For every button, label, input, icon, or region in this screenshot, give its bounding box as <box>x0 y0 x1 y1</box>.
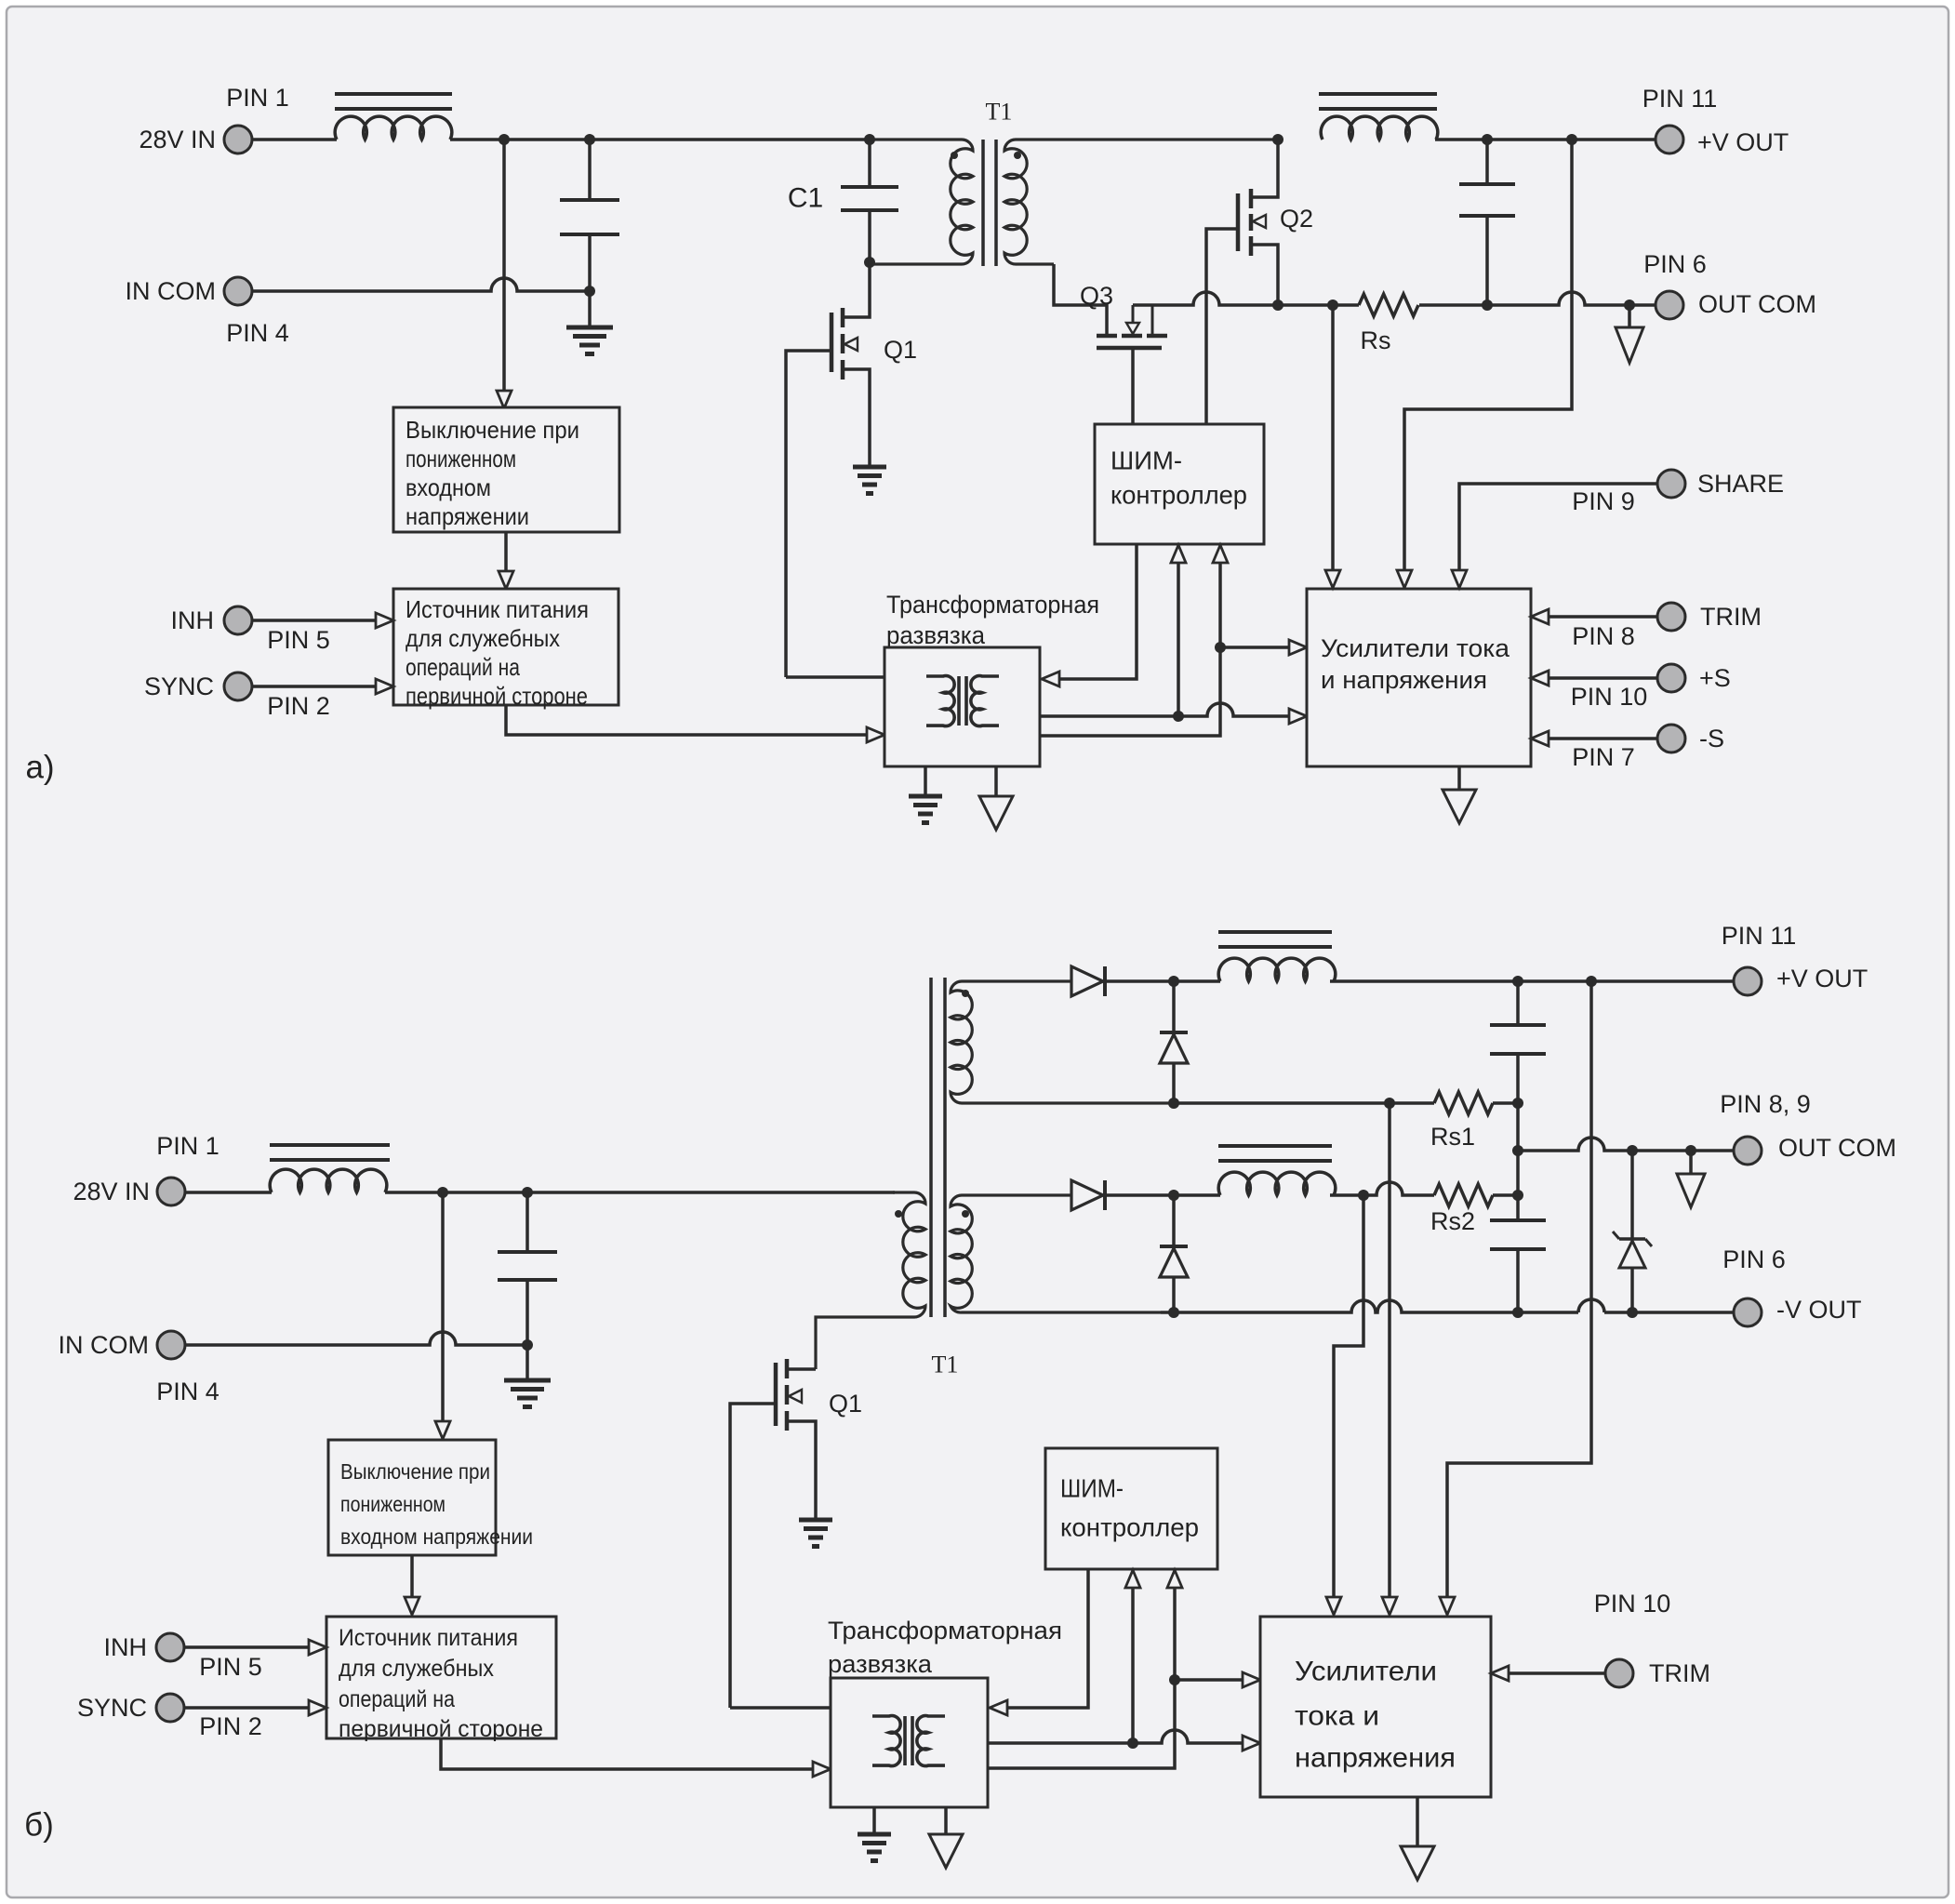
inductor input filter with core (fig a) <box>335 94 452 140</box>
svg-text:PIN 11: PIN 11 <box>1642 85 1718 113</box>
junction lower output branch (fig b) <box>1169 1674 1180 1685</box>
wire isolation box mid output (fig a) <box>1040 703 1307 724</box>
transformer T1 primary winding (fig b) <box>816 1192 925 1369</box>
wire UVLO to housekeeping box (fig a) <box>504 532 508 571</box>
svg-text:INH: INH <box>171 606 215 634</box>
wire PWM to isolation box feedback (fig b) <box>990 1569 1088 1715</box>
label Q3 (fig a) <box>1080 282 1113 310</box>
wire INH to box (fig b) <box>184 1640 326 1655</box>
svg-text:Q3: Q3 <box>1080 282 1113 310</box>
wire diode to L1 (fig b) <box>1105 979 1220 983</box>
terminal INH PIN5 (fig b) <box>104 1633 262 1681</box>
chassis arrow amplifier box (fig a) <box>1443 766 1476 823</box>
resistor Rs1 (fig b) <box>1434 1092 1493 1114</box>
T1 primary dot marker (fig a) <box>951 152 958 159</box>
label Rs (fig a) <box>1361 326 1391 354</box>
T1 secondary dot marker (fig a) <box>1014 152 1021 159</box>
svg-text:Q2: Q2 <box>1280 205 1313 233</box>
label Q1 (fig b) <box>829 1390 862 1418</box>
wire Rs2 to rail (fig b) <box>1493 1193 1518 1197</box>
T1 primary dot marker (fig b) <box>895 1210 902 1218</box>
svg-text:напряжении: напряжении <box>406 502 529 530</box>
svg-text:развязка: развязка <box>828 1650 933 1678</box>
terminal IN COM PIN4 (fig a) <box>126 277 289 347</box>
junction sense vert1 tap (fig b) <box>1358 1190 1369 1201</box>
ground Q1 source (fig a) <box>853 467 886 494</box>
capacitor -V output (fig b) <box>1490 1220 1546 1312</box>
svg-text:Источник питания: Источник питания <box>406 595 589 623</box>
label Rs2 (fig b) <box>1430 1207 1475 1235</box>
diode rectifier secondary2 (fig b) <box>1071 1180 1105 1210</box>
terminal IN COM PIN4 (fig b) <box>59 1331 219 1405</box>
wire SYNC to box (fig b) <box>184 1700 326 1715</box>
transformer T1 primary winding (fig a) <box>870 140 973 264</box>
junction IN COM / cap / ground (fig b) <box>522 1339 533 1351</box>
wire -S to amplifier (fig a) <box>1531 731 1657 746</box>
svg-text:C1: C1 <box>788 183 823 214</box>
inductor output filter with core (fig a) <box>1319 94 1438 140</box>
transistor Q1 (fig b) <box>730 1359 816 1708</box>
terminal +S PIN10 (fig a) <box>1571 664 1731 711</box>
svg-text:+V OUT: +V OUT <box>1776 965 1868 992</box>
capacitor input filter (fig a) <box>560 140 619 291</box>
wire inductor to transformer primary (fig b) <box>385 1191 895 1194</box>
svg-text:первичной стороне: первичной стороне <box>406 682 588 710</box>
wire centre rail (fig b) <box>1516 1103 1520 1220</box>
svg-text:для служебных: для служебных <box>406 624 560 652</box>
terminal SHARE PIN9 (fig a) <box>1572 470 1784 515</box>
wire Q3 gate to PWM box (fig a) <box>1131 348 1135 424</box>
junction OUT COM ground tap (fig b) <box>1685 1145 1696 1156</box>
block PWM controller box (fig a) <box>1095 424 1264 544</box>
terminal 28V IN PIN1 (fig a) <box>139 126 252 153</box>
ground Q1 source (fig b) <box>799 1520 832 1547</box>
inductor L2 output with core (fig b) <box>1218 1146 1336 1195</box>
arrow into housekeeping box (fig b) <box>405 1597 419 1615</box>
svg-text:Источник питания: Источник питания <box>339 1625 518 1651</box>
svg-text:PIN 4: PIN 4 <box>226 319 289 347</box>
wire INH to box (fig a) <box>252 613 393 628</box>
svg-text:PIN 6: PIN 6 <box>1643 250 1707 278</box>
wire 28V IN to input inductor (fig b) <box>185 1191 272 1194</box>
junction input rail / cap tap (fig b) <box>522 1187 533 1198</box>
svg-text:PIN 6: PIN 6 <box>1722 1245 1786 1273</box>
wire T1 secondary to Q3 (fig a) <box>1054 264 1107 336</box>
wire diode2 to L2 (fig b) <box>1105 1193 1220 1197</box>
label figure b <box>24 1807 54 1844</box>
wire inductor to C1 node (fig a) <box>450 138 870 141</box>
junction -V cap bottom (fig b) <box>1512 1307 1523 1318</box>
svg-text:напряжения: напряжения <box>1295 1743 1456 1774</box>
junction C1 bottom (fig a) <box>864 257 875 268</box>
wire TRIM to amplifier (fig b) <box>1491 1666 1605 1681</box>
junction freewheel diode top (fig b) <box>1168 976 1179 987</box>
transistor Q2 (fig a) <box>1206 140 1278 424</box>
block amplifier box (fig b) <box>1260 1617 1491 1797</box>
junction Rs1 right (fig b) <box>1512 1098 1523 1109</box>
diode rectifier secondary1 (fig b) <box>1071 966 1105 996</box>
junction +V cap tap (fig b) <box>1512 976 1523 987</box>
wire housekeeping to isolation transformer box (fig a) <box>506 705 884 742</box>
wire UVLO to housekeeping (fig b) <box>410 1555 414 1597</box>
junction freewheel diode2 top (fig b) <box>1168 1190 1179 1201</box>
block housekeeping supply box (fig b) <box>326 1617 556 1742</box>
diode freewheel secondary2 (fig b) <box>1160 1195 1188 1312</box>
label Rs1 (fig b) <box>1430 1123 1475 1151</box>
svg-text:Усилители тока: Усилители тока <box>1321 634 1510 662</box>
zener diode (fig b) <box>1613 1151 1652 1312</box>
junction Rs2 right (fig b) <box>1512 1190 1523 1201</box>
junction mid output to PWM (fig a) <box>1173 711 1184 722</box>
junction output cap top (fig a) <box>1482 134 1493 145</box>
junction input rail / UVLO tap (fig b) <box>437 1187 448 1198</box>
ground arrow OUT COM (fig b) <box>1677 1151 1705 1207</box>
svg-text:PIN 10: PIN 10 <box>1571 683 1648 711</box>
junction freewheel diode2 bottom (fig b) <box>1168 1307 1179 1318</box>
wire -V rail with hops (fig b) <box>1161 1299 1734 1312</box>
junction current sense tap (fig a) <box>1327 300 1338 311</box>
junction lower output branch (fig a) <box>1215 642 1226 653</box>
node PIN 1 label (fig b) <box>156 1132 219 1160</box>
resistor Rs2 (fig b) <box>1434 1184 1493 1206</box>
inductor input filter with core (fig b) <box>270 1145 390 1192</box>
svg-text:контроллер: контроллер <box>1060 1513 1199 1542</box>
wire IN COM with hop over UVLO line (fig a) <box>252 278 590 291</box>
label C1 (fig a) <box>788 183 823 214</box>
ground input filter (fig b) <box>504 1345 551 1407</box>
svg-text:SYNC: SYNC <box>144 672 214 700</box>
wire +V sense line down to amplifier (fig a) <box>1397 140 1572 588</box>
svg-text:Rs: Rs <box>1361 326 1391 354</box>
wire isolation box lower output (fig b) <box>988 1570 1182 1768</box>
junction Q2 source on OUT COM (fig a) <box>1272 300 1283 311</box>
svg-text:контроллер: контроллер <box>1110 481 1247 510</box>
wire isolation box mid output (fig b) <box>988 1730 1260 1751</box>
svg-text:пониженном: пониженном <box>340 1492 446 1516</box>
svg-text:OUT COM: OUT COM <box>1698 290 1816 318</box>
svg-text:TRIM: TRIM <box>1700 603 1762 631</box>
wire sense vert2 to amplifier (fig b) <box>1382 1103 1397 1615</box>
terminal -V OUT PIN6 (fig b) <box>1722 1245 1861 1326</box>
svg-text:а): а) <box>25 750 54 786</box>
svg-text:и напряжения: и напряжения <box>1321 666 1487 694</box>
block PWM controller box (fig b) <box>1045 1448 1217 1569</box>
svg-text:входном напряжении: входном напряжении <box>340 1525 533 1549</box>
svg-text:входном: входном <box>406 473 491 501</box>
svg-text:IN COM: IN COM <box>59 1331 150 1359</box>
capacitor output filter (fig a) <box>1459 140 1515 305</box>
svg-text:28V IN: 28V IN <box>139 126 216 153</box>
wire TRIM to amplifier (fig a) <box>1531 609 1657 624</box>
svg-text:операций на: операций на <box>339 1686 455 1712</box>
wire IN COM with hop (fig b) <box>185 1332 527 1345</box>
terminal SYNC PIN2 (fig a) <box>144 672 330 720</box>
terminal +V OUT PIN11 (fig a) <box>1642 85 1789 156</box>
junction sense vert2 tap (fig b) <box>1384 1098 1395 1109</box>
svg-text:ШИМ-: ШИМ- <box>1110 446 1182 475</box>
wire sense vert1 to amplifier (fig b) <box>1326 1195 1363 1615</box>
junction +V sense tap (fig b) <box>1586 976 1597 987</box>
svg-text:T1: T1 <box>986 99 1013 126</box>
terminal OUT COM PIN8 PIN9 (fig b) <box>1720 1090 1896 1165</box>
ground isolation box (fig b) <box>858 1807 891 1861</box>
svg-text:Трансформаторная: Трансформаторная <box>828 1617 1062 1644</box>
wire isolation box lower output (fig a) <box>1040 545 1228 736</box>
wire current sense down to amplifier (fig a) <box>1325 305 1340 588</box>
wire OUT COM rail with hops (fig a) <box>1133 292 1656 305</box>
svg-text:-V OUT: -V OUT <box>1776 1296 1862 1324</box>
label isolation transformer box (fig b) <box>828 1617 1062 1678</box>
wire housekeeping to isolation box (fig b) <box>441 1738 831 1777</box>
capacitor +V output (fig b) <box>1490 981 1546 1103</box>
wire UVLO sense vertical (fig b) <box>441 1192 445 1421</box>
svg-text:ШИМ-: ШИМ- <box>1060 1474 1124 1503</box>
ground input filter (fig a) <box>566 291 613 354</box>
label figure a <box>25 750 54 786</box>
wire UVLO sense vertical (fig a) <box>502 140 506 391</box>
chassis arrow amplifier box (fig b) <box>1401 1797 1434 1880</box>
terminal SYNC PIN2 (fig b) <box>77 1694 262 1740</box>
wire OUT COM rail (fig b) <box>1518 1138 1734 1151</box>
block amplifier box (fig a) <box>1307 589 1531 766</box>
terminal 28V IN PIN1 (fig b) <box>73 1178 185 1205</box>
wire inductor to +V OUT (fig a) <box>1435 138 1656 141</box>
wire Q1 gate into isolation box (fig b) <box>730 1706 831 1710</box>
junction Q2 drain (fig a) <box>1272 134 1283 145</box>
svg-text:PIN 5: PIN 5 <box>199 1653 262 1681</box>
ground isolation box (fig a) <box>909 766 942 823</box>
label isolation transformer box (fig a) <box>886 591 1099 649</box>
wire +S to amplifier (fig a) <box>1531 671 1657 686</box>
junction +V sense tap (fig a) <box>1566 134 1577 145</box>
wire SYNC to box (fig a) <box>252 679 393 694</box>
terminal TRIM PIN10 (fig b) <box>1594 1590 1710 1687</box>
svg-text:Выключение при: Выключение при <box>340 1459 490 1484</box>
svg-text:PIN 7: PIN 7 <box>1572 743 1635 771</box>
svg-text:PIN 2: PIN 2 <box>199 1712 262 1740</box>
svg-text:PIN 5: PIN 5 <box>267 626 330 654</box>
svg-text:PIN 9: PIN 9 <box>1572 487 1635 515</box>
svg-text:Выключение при: Выключение при <box>406 416 579 444</box>
svg-text:INH: INH <box>104 1633 148 1661</box>
wire L2 to Rs2 with hop (fig b) <box>1330 1182 1434 1195</box>
junction input rail / cap tap (fig a) <box>584 134 595 145</box>
junction IN COM / cap / ground (fig a) <box>584 286 595 297</box>
junction OUT COM ground tap (fig a) <box>1624 300 1635 311</box>
svg-text:PIN 11: PIN 11 <box>1722 922 1797 950</box>
junction output cap bottom (fig a) <box>1482 300 1493 311</box>
wire mid output up into PWM (fig a) <box>1171 545 1186 716</box>
arrow into UVLO box (fig b) <box>435 1421 450 1439</box>
svg-text:PIN 8: PIN 8 <box>1572 622 1635 650</box>
terminal TRIM PIN8 (fig a) <box>1572 603 1762 650</box>
icon isolation transformer (fig b) <box>872 1716 945 1766</box>
transformer T1 core (fig b) <box>931 978 945 1317</box>
svg-text:PIN 1: PIN 1 <box>156 1132 219 1160</box>
svg-text:PIN 10: PIN 10 <box>1594 1590 1671 1618</box>
block housekeeping supply box (fig a) <box>393 589 618 710</box>
wire +V sense down to amplifier (fig b) <box>1440 981 1591 1615</box>
svg-text:Rs1: Rs1 <box>1430 1123 1475 1151</box>
wire 28V IN to input inductor (fig a) <box>252 138 337 141</box>
wire SHARE to amplifier (fig a) <box>1452 484 1657 588</box>
arrow into UVLO box (fig a) <box>497 391 512 408</box>
inductor L1 output with core (fig b) <box>1218 932 1336 981</box>
svg-text:TRIM: TRIM <box>1649 1659 1710 1687</box>
svg-text:развязка: развязка <box>886 621 986 649</box>
wire PWM to isolation box feedback (fig a) <box>1042 544 1137 686</box>
svg-text:SHARE: SHARE <box>1697 470 1784 498</box>
T1 secondary2 dot marker (fig b) <box>962 1210 969 1218</box>
block isolation transformer box (fig a) <box>884 647 1040 766</box>
transformer T1 core (fig a) <box>983 140 996 266</box>
svg-text:PIN 1: PIN 1 <box>226 84 289 112</box>
capacitor input filter (fig b) <box>498 1192 557 1345</box>
wire Q1 gate into isolation box (fig a) <box>786 675 884 679</box>
junction mid output to PWM (fig b) <box>1127 1738 1138 1749</box>
capacitor C1 (fig a) <box>841 140 898 259</box>
label Q2 (fig a) <box>1280 205 1313 233</box>
svg-text:+V OUT: +V OUT <box>1697 128 1789 156</box>
svg-text:б): б) <box>24 1807 54 1844</box>
transformer T1 secondary 1 winding (fig b) <box>951 981 1174 1103</box>
terminal -S PIN7 (fig a) <box>1572 725 1724 771</box>
node PIN 1 label (fig a) <box>226 84 289 112</box>
wire secondary1 bottom rail (fig b) <box>1174 1101 1359 1105</box>
svg-text:IN COM: IN COM <box>126 277 217 305</box>
transistor Q3 (fig a) <box>1097 305 1167 348</box>
svg-text:SYNC: SYNC <box>77 1694 147 1722</box>
junction input rail / UVLO tap (fig a) <box>499 134 510 145</box>
wire lower output branch to amplifier (fig b) <box>1175 1672 1260 1687</box>
svg-text:PIN 4: PIN 4 <box>156 1378 219 1405</box>
svg-text:Q1: Q1 <box>829 1390 862 1418</box>
label Q1 (fig a) <box>884 336 917 364</box>
junction OUT COM tap (fig b) <box>1512 1145 1523 1156</box>
svg-text:для служебных: для служебных <box>339 1656 494 1682</box>
svg-text:операций на: операций на <box>406 653 520 681</box>
wire Rs1 to rail (fig b) <box>1359 1101 1518 1105</box>
block isolation transformer box (fig b) <box>831 1678 988 1807</box>
junction freewheel diode bottom (fig b) <box>1168 1098 1179 1109</box>
resistor Rs (fig a) <box>1359 294 1418 316</box>
chassis arrow isolation box (fig a) <box>979 766 1013 830</box>
icon isolation transformer (fig a) <box>926 676 999 726</box>
wire lower output branch to amplifier (fig a) <box>1220 640 1307 655</box>
transformer T1 secondary 2 winding (fig b) <box>951 1195 1161 1312</box>
svg-text:PIN 2: PIN 2 <box>267 692 330 720</box>
block UVLO box (fig a) <box>393 407 619 532</box>
label T1 (fig a) <box>986 99 1013 126</box>
svg-text:T1: T1 <box>932 1351 959 1378</box>
svg-text:OUT COM: OUT COM <box>1778 1134 1896 1162</box>
arrow into housekeeping box (fig a) <box>499 571 513 589</box>
svg-text:+S: +S <box>1699 664 1731 692</box>
wire mid output up into PWM (fig b) <box>1125 1570 1140 1743</box>
junction zener top (fig b) <box>1627 1145 1638 1156</box>
junction C1 top (fig a) <box>864 134 875 145</box>
ground arrow OUT COM (fig a) <box>1616 305 1643 363</box>
svg-text:Усилители: Усилители <box>1295 1657 1437 1687</box>
T1 secondary1 dot marker (fig b) <box>962 990 969 997</box>
svg-text:пониженном: пониженном <box>406 445 516 473</box>
svg-text:Трансформаторная: Трансформаторная <box>886 591 1099 619</box>
terminal OUT COM PIN6 (fig a) <box>1643 250 1816 319</box>
transformer T1 secondary winding (fig a) <box>1004 140 1278 264</box>
label T1 (fig b) <box>932 1351 959 1378</box>
svg-text:первичной стороне: первичной стороне <box>339 1716 543 1742</box>
chassis arrow isolation box (fig b) <box>929 1807 963 1868</box>
terminal INH PIN5 (fig a) <box>171 606 330 654</box>
transistor Q1 (fig a) <box>786 259 870 677</box>
diode freewheel secondary1 (fig b) <box>1160 981 1188 1103</box>
svg-text:PIN 8, 9: PIN 8, 9 <box>1720 1090 1811 1118</box>
svg-text:Rs2: Rs2 <box>1430 1207 1475 1235</box>
wire L1 to +V OUT (fig b) <box>1330 979 1734 983</box>
svg-text:28V IN: 28V IN <box>73 1178 150 1205</box>
terminal +V OUT PIN11 (fig b) <box>1722 922 1869 995</box>
svg-text:тока и: тока и <box>1295 1701 1379 1732</box>
svg-text:-S: -S <box>1699 725 1724 752</box>
svg-text:Q1: Q1 <box>884 336 917 364</box>
junction zener bottom (fig b) <box>1627 1307 1638 1318</box>
block UVLO box (fig b) <box>328 1440 533 1555</box>
